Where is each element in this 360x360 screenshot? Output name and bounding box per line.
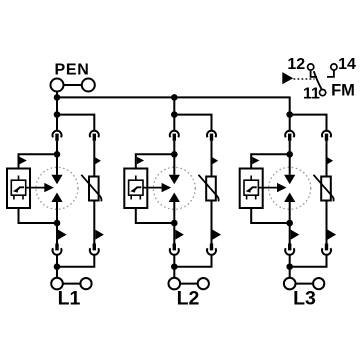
switch FM moving arm xyxy=(314,71,322,90)
plug-in disconnect L2 right bottom xyxy=(207,244,216,255)
terminal 14 xyxy=(331,64,337,70)
terminal L3-b xyxy=(313,278,324,289)
plug-in disconnect L1 left bottom xyxy=(53,244,62,255)
junction L1 trigger branch top xyxy=(54,151,61,158)
terminal L3-a xyxy=(284,278,296,290)
plug-in disconnect L2 left bottom xyxy=(170,244,179,255)
wire L3 trigger branch bottom xyxy=(251,208,290,223)
thermal disconnect marker L3 left xyxy=(291,230,300,240)
plug-in disconnect L2 right top xyxy=(207,131,216,141)
wire L3 left lower xyxy=(289,223,291,244)
varistor L2 xyxy=(199,175,219,202)
wire L1 left upper xyxy=(56,141,58,155)
varistor L3 xyxy=(314,175,334,202)
svg-text:L2: L2 xyxy=(177,288,200,310)
wire L3 left to terminal xyxy=(289,255,291,278)
wire L2 spark gap lower lead xyxy=(173,202,175,223)
plug-in disconnect L1 left top xyxy=(53,131,62,141)
wire L3 right return xyxy=(290,255,327,267)
junction L3 bottom node xyxy=(286,263,293,270)
trigger firing arrow L3 xyxy=(258,183,286,192)
junction L2 trigger branch bottom xyxy=(171,220,178,227)
functional unit dashed circle L1 xyxy=(36,167,78,209)
thermal disconnect marker L3 right xyxy=(327,157,333,164)
wire L2 left lower xyxy=(173,223,175,244)
thermal disconnect marker L2 left xyxy=(175,230,184,240)
plug-in disconnect L3 left top xyxy=(285,131,294,141)
spark gap L2 lower electrode xyxy=(169,193,180,203)
spark gap L3 upper electrode xyxy=(284,175,295,184)
wire L1 right upper xyxy=(93,141,95,177)
plug-in disconnect L3 right top xyxy=(322,131,331,141)
plug-in disconnect L2 left top xyxy=(170,131,179,141)
wire L3 right upper xyxy=(326,141,328,177)
terminal 12 xyxy=(308,64,314,70)
junction PEN bus / L2 branch xyxy=(171,94,178,101)
spark gap L1 upper electrode xyxy=(51,175,62,184)
wire L1 left to terminal xyxy=(56,255,58,278)
wire L3 tap to N-branch xyxy=(290,115,327,131)
plug-in disconnect L3 right bottom xyxy=(322,244,331,255)
wire L3 trigger branch top xyxy=(251,154,290,168)
terminal PEN-2 xyxy=(82,79,95,92)
wire L1 left lower xyxy=(56,223,58,244)
thermal disconnect marker L1 left xyxy=(58,230,67,240)
functional unit dashed circle L3 xyxy=(269,167,311,209)
wire L3 right lower xyxy=(326,201,328,244)
junction L3 trigger branch bottom xyxy=(286,220,293,227)
actuator arrow FM xyxy=(282,72,293,84)
wire L2 spark gap upper lead xyxy=(173,154,175,175)
svg-text:FM: FM xyxy=(331,82,355,100)
terminal L2-b xyxy=(198,278,209,289)
lightning bolt symbol L3 xyxy=(246,187,257,192)
thermal disconnect marker L2 trigger xyxy=(137,157,144,164)
wire L1 terminal link xyxy=(63,283,81,285)
thermal disconnect marker L1 right xyxy=(95,157,101,164)
junction L2 tap xyxy=(171,111,178,118)
trigger firing arrow L2 xyxy=(143,183,171,192)
wire L2 terminal link xyxy=(180,283,198,285)
terminal PEN-1 xyxy=(51,79,64,92)
wire L2 left upper xyxy=(173,141,175,155)
spark gap L2 upper electrode xyxy=(169,175,180,184)
svg-text:14: 14 xyxy=(338,56,356,73)
junction L1 tap xyxy=(54,111,61,118)
trigger gas tube L1 xyxy=(11,176,25,200)
svg-text:L1: L1 xyxy=(58,288,81,310)
plug-in disconnect L3 left bottom xyxy=(285,244,294,255)
plug-in disconnect L1 right top xyxy=(90,131,99,141)
terminal L2-a xyxy=(169,278,181,290)
wire L1 spark gap lower lead xyxy=(56,202,58,223)
wire PEN drop xyxy=(56,92,58,131)
svg-text:12: 12 xyxy=(287,56,305,73)
wire L3 left upper xyxy=(289,141,291,155)
varistor L1 xyxy=(81,175,101,202)
wire L1 right return xyxy=(57,255,94,267)
bus PEN main xyxy=(57,97,290,114)
thermal disconnect marker L3 right bottom xyxy=(328,230,337,240)
wire L2 right return xyxy=(174,255,211,267)
wire L1 trigger branch bottom xyxy=(19,208,58,223)
wire L2 left to terminal xyxy=(173,255,175,278)
thermal disconnect marker L2 right bottom xyxy=(213,230,222,240)
thermal disconnect marker L3 trigger xyxy=(252,157,259,164)
wire PEN terminal link xyxy=(64,84,82,86)
trigger circuit box L3 xyxy=(240,169,263,209)
wire L3 spark gap upper lead xyxy=(289,154,291,175)
terminal L1-b xyxy=(80,278,91,289)
svg-text:11: 11 xyxy=(303,85,320,102)
svg-text:PEN: PEN xyxy=(55,62,90,79)
svg-text:L3: L3 xyxy=(293,288,316,310)
lightning bolt symbol L1 xyxy=(13,187,24,192)
wire L2 trigger branch bottom xyxy=(136,208,175,223)
trigger firing arrow L1 xyxy=(26,183,54,192)
wire L1 tap to N-branch xyxy=(57,115,94,131)
junction L3 tap xyxy=(286,111,293,118)
lightning bolt symbol L2 xyxy=(130,187,141,192)
wire L1 trigger branch top xyxy=(19,154,58,168)
junction L2 bottom node xyxy=(171,263,178,270)
wire L1 spark gap upper lead xyxy=(56,154,58,175)
junction L2 trigger branch top xyxy=(171,151,178,158)
trigger circuit box L1 xyxy=(7,169,30,209)
wire L2 trigger branch top xyxy=(136,154,175,168)
wire L2 right lower xyxy=(211,201,213,244)
trigger circuit box L2 xyxy=(124,169,147,209)
wire L2 phase drop xyxy=(173,97,175,130)
trigger gas tube L3 xyxy=(244,176,258,200)
contact 14 fixed hook xyxy=(327,70,334,77)
junction L1 bottom node xyxy=(54,263,61,270)
spark gap L1 lower electrode xyxy=(51,193,62,203)
contact 12 fixed hook xyxy=(311,70,317,77)
wire L2 right upper xyxy=(211,141,213,177)
thermal disconnect marker L2 right xyxy=(212,157,218,164)
terminal L1-a xyxy=(51,278,63,290)
wire L3 terminal link xyxy=(296,283,314,285)
junction L3 trigger branch top xyxy=(286,151,293,158)
wire L3 spark gap lower lead xyxy=(289,202,291,223)
functional unit dashed circle L2 xyxy=(153,167,195,209)
thermal disconnect marker L1 right bottom xyxy=(95,230,104,240)
wire L3 phase drop xyxy=(289,115,291,131)
actuator dashed link FM xyxy=(294,78,315,80)
thermal disconnect marker L1 trigger xyxy=(20,157,27,164)
terminal 11 xyxy=(320,90,326,96)
plug-in disconnect L1 right bottom xyxy=(90,244,99,255)
junction L1 trigger branch bottom xyxy=(54,220,61,227)
junction PEN bus / L1 branch xyxy=(54,94,61,101)
wire L2 tap to N-branch xyxy=(174,115,211,131)
spark gap L3 lower electrode xyxy=(284,193,295,203)
wire L1 right lower xyxy=(93,201,95,244)
trigger gas tube L2 xyxy=(129,176,143,200)
